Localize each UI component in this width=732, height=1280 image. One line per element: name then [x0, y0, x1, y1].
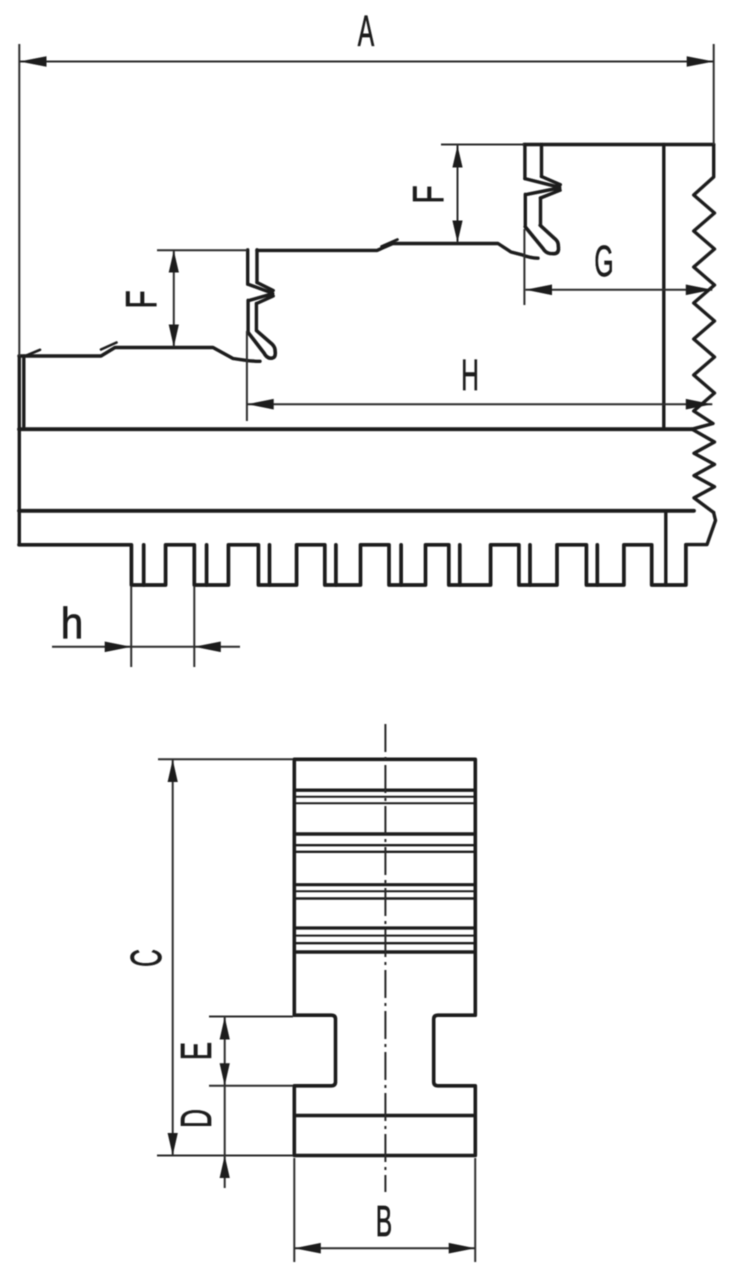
chamfer tick (third step) — [101, 343, 117, 350]
svg-text:A: A — [358, 7, 375, 56]
jaw serration profile (middle step) hook — [248, 331, 275, 358]
master jaw block right edge with break zigzag — [692, 145, 715, 430]
dim E extension lines — [209, 1017, 293, 1086]
dim h line — [52, 646, 240, 648]
dim F mid extension line — [157, 249, 247, 251]
arrow h left (outside) — [105, 642, 132, 653]
arrow F mid up — [169, 251, 179, 273]
dim B line — [294, 1247, 475, 1249]
dim H line — [247, 403, 712, 405]
dim A left extension line — [18, 44, 20, 356]
svg-text:F: F — [116, 290, 165, 308]
dim F mid line — [173, 251, 175, 348]
chamfer tick (middle step) — [382, 240, 398, 247]
jaw serration profile (middle step) lower verticals — [248, 300, 256, 332]
jaw body outline with side notches — [294, 759, 475, 1155]
dim A line — [20, 61, 714, 63]
top step top edge — [524, 143, 714, 146]
chuck body bar bottom edge — [19, 509, 694, 513]
arrow A left — [20, 56, 47, 67]
master jaw block left edge — [662, 145, 665, 430]
arrow D bottom (outside, below) — [220, 1156, 230, 1179]
arrow H right — [686, 399, 713, 410]
dim G line — [526, 289, 713, 291]
svg-text:E: E — [171, 1042, 220, 1060]
arrow C top — [168, 760, 178, 783]
arrow B left — [294, 1243, 321, 1254]
arrow F top up — [452, 146, 462, 168]
internal edge line above jaw bottom — [294, 1114, 475, 1117]
block edge continuation through band — [664, 513, 667, 586]
svg-text:C: C — [122, 949, 171, 967]
dim h extension lines — [131, 586, 194, 667]
dim E / D line — [224, 1017, 226, 1188]
tooth internal verticals — [144, 545, 598, 585]
arrow C bottom — [168, 1133, 178, 1156]
jaw serration profile (top step) chevron — [525, 177, 560, 199]
dim F top line — [457, 146, 459, 243]
arrow H left — [247, 399, 274, 410]
left end tick (third step) — [24, 350, 40, 357]
svg-text:G: G — [594, 237, 613, 286]
jaw serration profile (top step) lower vertical pair — [525, 194, 540, 225]
arrow E bottom — [220, 1063, 230, 1086]
svg-text:D: D — [171, 1109, 221, 1128]
third step top edge — [19, 348, 260, 362]
mounting comb: band bottom and teeth — [19, 545, 686, 585]
jaw serration profile (middle step) verticals — [248, 250, 257, 284]
svg-text:H: H — [461, 351, 479, 400]
serration face lines — [295, 790, 475, 952]
dim G extension line — [523, 229, 525, 305]
dim C line — [172, 760, 174, 1156]
dim C extension lines — [157, 759, 293, 1155]
bar right break zigzag — [692, 429, 715, 512]
arrow h right (outside) — [194, 642, 221, 653]
jaw serration profile (top step) left vertical pair — [525, 145, 542, 179]
band right corner break — [686, 513, 716, 545]
middle step top edge — [257, 244, 538, 259]
arrow F mid down — [169, 325, 179, 348]
dim H extension line — [246, 331, 248, 421]
arrow B right — [449, 1243, 476, 1254]
arrow G left — [526, 285, 553, 296]
left edge of jaw body (double line) — [19, 356, 24, 545]
chuck body bar top edge — [19, 427, 692, 431]
dim A right extension line — [713, 44, 715, 145]
centerline of jaw — [384, 724, 386, 1192]
jaw serration profile (middle step) chevron — [248, 283, 274, 304]
svg-text:B: B — [376, 1197, 392, 1246]
dim B extension lines — [294, 1158, 475, 1262]
svg-text:F: F — [403, 185, 452, 203]
arrow G right — [686, 285, 713, 296]
svg-text:h: h — [61, 598, 84, 647]
arrow F top down — [452, 221, 462, 243]
dim F top extension line — [441, 144, 524, 146]
jaw serration profile (top step) hook — [525, 225, 558, 253]
arrow A right — [687, 56, 714, 67]
arrow E top — [220, 1017, 230, 1040]
